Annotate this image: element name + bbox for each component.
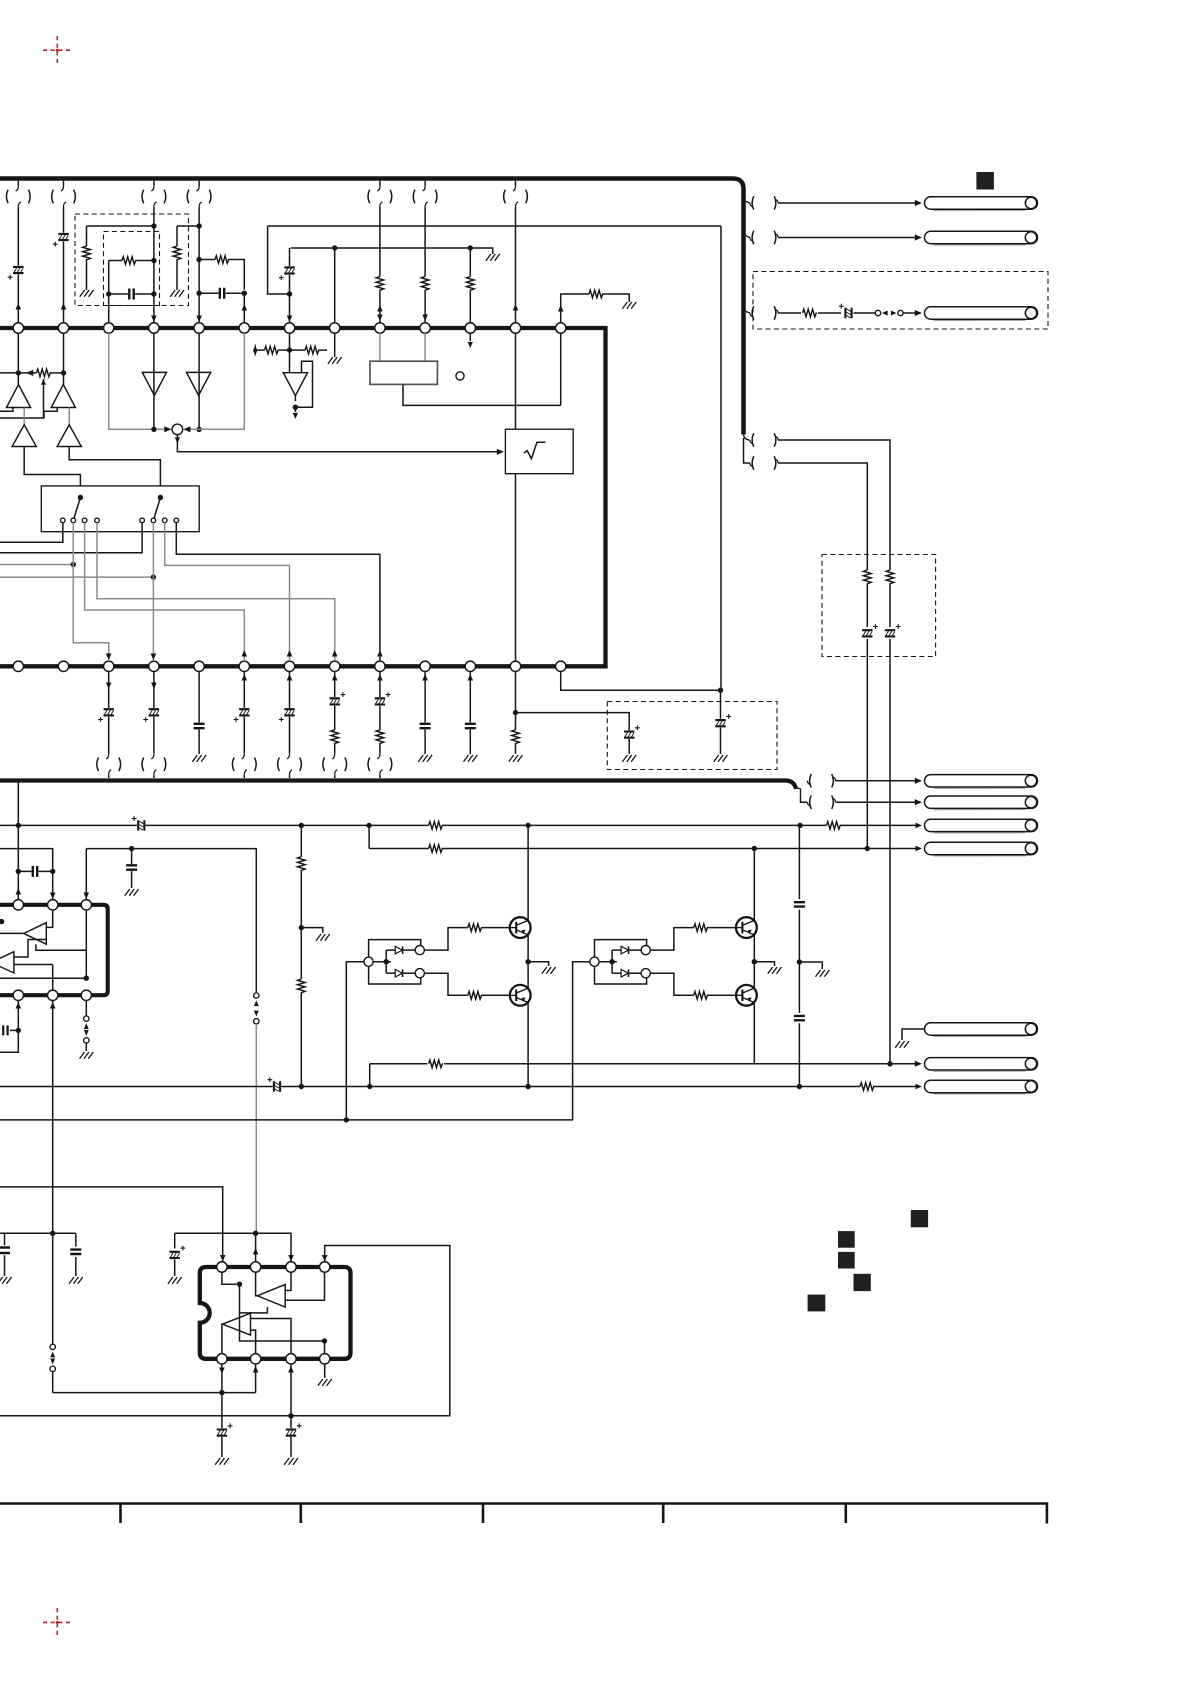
dashed box B [104, 232, 160, 306]
arrow U2p3 [84, 893, 90, 899]
IC U1 top pin 7 [284, 323, 294, 333]
wire U3 p2 int [256, 1273, 258, 1296]
node [299, 823, 304, 828]
wire A1-A3 link [23, 408, 25, 425]
index square S1 [911, 1210, 928, 1227]
arrow p19 [242, 650, 248, 656]
wire U3 p1 int [222, 1273, 237, 1285]
ground G24 [464, 755, 478, 762]
IC U1 top pin 9 [375, 323, 385, 333]
node pot-pin2 [61, 370, 66, 375]
wire R10 leads [889, 554, 891, 570]
node B1 in [384, 959, 389, 964]
diode D4 [621, 969, 628, 977]
arrow U3p3 [288, 1255, 294, 1261]
pot wiper arrow [41, 379, 46, 385]
ground G40 [215, 1458, 229, 1465]
IC U3 bottom pin 5 [320, 1354, 330, 1364]
wire y1233 mid seg [175, 1233, 291, 1261]
potentiometer R11 [37, 369, 51, 377]
capacitor C35 (electrolytic) [274, 1081, 280, 1091]
selector contact 1 [61, 518, 66, 523]
wire R2 leads [109, 260, 122, 262]
ground G38 [69, 1277, 83, 1284]
IC U1 bottom pin 18 [194, 661, 204, 671]
wire gray trunk x256 [255, 1024, 257, 1233]
wire bus hook 2 [744, 232, 751, 238]
arrow sum in-left [164, 426, 171, 432]
node y1233-256 [253, 1231, 258, 1236]
ground G35 [816, 970, 830, 977]
resistor R1 [83, 246, 91, 260]
capacitor C11 (electrolytic) [715, 720, 725, 726]
IC U2 outline [0, 905, 108, 995]
arrow [332, 674, 338, 680]
wire gray feed 2 [0, 576, 153, 578]
wire [0, 824, 137, 826]
arrow p20 [287, 650, 293, 656]
wire ring4 out [650, 973, 693, 995]
fold ruler [0, 1504, 1048, 1524]
wire R3 leads [176, 226, 178, 246]
function box F1 [370, 361, 437, 384]
node U3 int2 [322, 1338, 327, 1343]
wire U2 pin2 top [52, 871, 54, 899]
arrow U3p7 [253, 1366, 259, 1372]
capacitor C12 (electrolytic) [138, 820, 144, 830]
wire contact F chain [152, 523, 154, 661]
connector CN3-1 [810, 774, 812, 788]
connector CNB-19 [232, 758, 234, 772]
sqrt glyph [524, 442, 545, 458]
resistor R35 [694, 992, 708, 1000]
wire A3 out to switch [24, 447, 80, 487]
inline jack plug P4 [364, 957, 373, 966]
node contact F join [151, 574, 156, 579]
resistor R36 [429, 1060, 443, 1068]
ground G42 [318, 1379, 332, 1386]
wire [424, 672, 426, 723]
IC U1 top pin 5 [194, 323, 204, 333]
wire ring2 out [424, 973, 467, 995]
jack J7 [934, 855, 1026, 857]
IC U3 top pin 3 [286, 1262, 296, 1272]
node [16, 823, 21, 828]
capacitor C39 (electrolytic) [217, 1430, 227, 1436]
node C3 left [106, 291, 111, 296]
IC U1 top pin 4 [149, 323, 159, 333]
wire ring3 out [650, 928, 693, 951]
node p4 cap [16, 1028, 21, 1033]
diode D3 [621, 946, 628, 954]
resistor R9 [864, 570, 872, 584]
resistor R10 [886, 570, 894, 584]
wire [63, 181, 65, 186]
arrow p16 [106, 654, 112, 660]
capacitor C17 (electrolytic) [149, 709, 159, 715]
wire bus to y825 [17, 783, 19, 826]
wire x52 trunk 2 [52, 1372, 54, 1393]
jack J8 ground lead [902, 1029, 925, 1040]
switch SW1a [78, 495, 83, 500]
wire pin10 internal [424, 333, 426, 361]
arrow U2p1 [16, 888, 22, 894]
wire [289, 672, 291, 708]
resistor R26 [429, 822, 443, 830]
wire [469, 248, 471, 277]
arrow U3p6 [288, 1366, 294, 1372]
node [366, 823, 371, 828]
ground G37 [0, 1277, 12, 1284]
wire to jack J5 [836, 801, 917, 803]
capacitor C37 [70, 1250, 81, 1254]
resistor R28 [429, 845, 443, 853]
node c31 join [129, 846, 134, 851]
arrow [513, 304, 519, 310]
IC U1 bottom pin 14 [13, 661, 23, 671]
capacitor C4 [220, 288, 224, 299]
wire pin13 internal [560, 333, 562, 405]
arrow p21 [332, 650, 338, 656]
wire dec 4 [798, 1023, 800, 1086]
selector contact 4 [95, 518, 100, 523]
capacitor C18 [194, 724, 205, 728]
wire r-chain 2 [300, 871, 302, 928]
IC U2 bottom pin 5 [48, 990, 58, 1000]
wire [369, 848, 429, 850]
node lineA-B [367, 1084, 372, 1089]
arrow pin13 [558, 305, 564, 311]
connector CN1-2 [52, 190, 54, 204]
ground G7 [622, 755, 636, 762]
wire Q1-Q2 join [527, 935, 529, 988]
wire R14 to gnd [603, 294, 629, 302]
arrow sum out [175, 437, 180, 443]
ground G5 [192, 755, 206, 762]
wire pin2 internal [63, 333, 65, 385]
arrow [422, 315, 428, 321]
arrow J2 [915, 234, 922, 240]
arrow U3p2 [253, 1248, 259, 1254]
capacitor C22 (electrolytic) [375, 698, 385, 704]
wire D-mid [385, 950, 387, 973]
op-amp A4 (U1) [57, 425, 81, 447]
node sum-left [151, 427, 156, 432]
contact ring Q1 [415, 946, 424, 955]
wire [108, 672, 110, 708]
ground G23 [418, 755, 432, 762]
wire p7 row [222, 1392, 256, 1394]
connector CN2-3 [752, 306, 754, 320]
node p8 join [219, 1390, 224, 1395]
wire U3 p8 down [221, 1365, 223, 1429]
capacitor C34 [794, 1016, 805, 1020]
ground G2 [170, 290, 184, 297]
resistor R14 [589, 290, 603, 298]
jack J5 [934, 809, 1026, 811]
wire dec gnd stub [799, 962, 822, 969]
wire P4 left [346, 962, 364, 1120]
node contact B join [71, 562, 76, 567]
wire p7 up [255, 1365, 257, 1393]
IC U1 bottom pin 15 [58, 661, 68, 671]
arrow [61, 303, 67, 309]
capacitor C8 (electrolytic) [885, 630, 895, 636]
wire U2A in [46, 910, 52, 927]
IC U1 outline [0, 328, 606, 666]
wire [198, 672, 200, 723]
arrow pin6 [242, 304, 248, 310]
capacitor C3 [129, 289, 133, 300]
node [797, 823, 802, 828]
wire contact G chain [165, 523, 290, 661]
connector CN1-1 [6, 190, 8, 204]
ground G33 [542, 967, 556, 974]
IC U1 top pin 2 [58, 323, 68, 333]
arrow sum in-right [183, 426, 190, 432]
resistor R5 [467, 277, 475, 291]
arrow J4 [915, 778, 922, 784]
wire U3B in1 [251, 1319, 292, 1354]
wire dec chain [798, 825, 800, 899]
connector CN1-4 [142, 190, 144, 204]
node r-chain gnd [299, 925, 304, 930]
capacitor C36 [0, 1248, 10, 1254]
wire y848 vert [368, 825, 370, 848]
index square S4 [854, 1274, 871, 1291]
arrow [377, 315, 383, 321]
resistor R27 [827, 822, 841, 830]
capacitor C5 (electrolytic) [284, 267, 294, 273]
wire R1 top link [87, 225, 154, 227]
node B2 in [609, 959, 614, 964]
node [287, 291, 292, 296]
wire R8 to C6 [818, 312, 841, 314]
wire pin13 top [561, 294, 589, 323]
wire [515, 181, 517, 186]
IC U1 top pin 10 [420, 323, 430, 333]
IC U1 bottom pin 24 [465, 661, 475, 671]
IC U3 top pin 1 [217, 1262, 227, 1272]
wire dec 3 [798, 962, 800, 1013]
node [299, 1084, 304, 1089]
arrow J1 [915, 200, 922, 206]
capacitor C19 (electrolytic) [239, 709, 249, 715]
node lineA-x890 [887, 1061, 892, 1066]
op-amp U3B [223, 1313, 251, 1335]
wire c38 down [174, 1259, 176, 1276]
wire QG2 gnd [754, 962, 774, 966]
wire CN2-4 right [778, 440, 890, 554]
wire [379, 672, 381, 698]
wire U2 pin1 top [17, 825, 19, 899]
wire R9 leads [866, 554, 868, 570]
wire p4 down [0, 1030, 18, 1052]
wire B2 bracket low [595, 966, 647, 984]
wire bus drop 2 [801, 798, 808, 803]
node fb join [718, 688, 723, 693]
jack J6 [934, 832, 1026, 834]
inline plug P6 [50, 1344, 55, 1349]
connector CN2-1 [752, 196, 754, 210]
wire B5 out [198, 372, 200, 429]
wire A1 base stub [0, 408, 13, 412]
wire contact E out [0, 523, 142, 553]
node U3 int1 [237, 1282, 242, 1287]
wire pin7 internal [289, 333, 291, 373]
dashed box supply [607, 702, 777, 770]
IC U1 top pin 3 [104, 323, 114, 333]
transistor Q4 [736, 985, 757, 1006]
capacitor C6 (electrolytic) [845, 308, 851, 318]
capacitor C1 (electrolytic) [13, 267, 23, 273]
resistor R2 [122, 257, 136, 265]
node pot-pin1 [16, 370, 21, 375]
arrow [377, 305, 383, 311]
wire C39 down [221, 1437, 223, 1457]
wire c31 down [131, 871, 133, 888]
jack J4 [934, 787, 1026, 789]
wire pin9 internal [379, 333, 381, 361]
wire U2A out [0, 932, 24, 934]
transistor Q1 [510, 917, 531, 938]
IC U1 top pin 1 [13, 323, 23, 333]
capacitor C10 (electrolytic) [624, 732, 634, 738]
wire U2A fb [36, 944, 86, 950]
wire bus hook 3 [744, 308, 751, 314]
diode D1 [395, 946, 402, 954]
op-amp A3 (U1) [12, 425, 36, 447]
wire P5 left [573, 962, 590, 1120]
jack J10 [934, 1093, 1026, 1095]
node pin5-226 [196, 223, 201, 228]
wire dec 2 [798, 910, 800, 962]
node pin4-226 [151, 223, 156, 228]
wire U2 978 left [0, 977, 86, 979]
selector contact 5 [140, 518, 145, 523]
wire U3 p4 int [285, 1273, 324, 1301]
arrow [916, 1084, 922, 1090]
node y1233-52 [50, 1231, 55, 1236]
wire pin6 internal [188, 333, 244, 429]
node [525, 1084, 530, 1089]
resistor R25 [512, 730, 520, 744]
node [525, 823, 530, 828]
ground G30 [125, 889, 139, 896]
capacitor C32 [3, 1025, 7, 1035]
wire U3B in2 [251, 1330, 256, 1353]
wire R33 out [482, 994, 510, 996]
capacitor C33 [794, 902, 805, 906]
ground G4 [328, 357, 342, 364]
wire y848 mid [86, 849, 256, 992]
arrow B7 out [293, 413, 298, 419]
ground G39 [168, 1277, 182, 1284]
connector CNB-16 [97, 758, 99, 772]
arrow [287, 674, 293, 680]
inline plug P1 [875, 310, 880, 315]
arrow U2p4 [16, 1002, 22, 1008]
wire fb drop x721 [720, 226, 722, 690]
node cap30 right [50, 869, 55, 874]
wire r-chain 4 [300, 993, 302, 1087]
wire [334, 672, 336, 698]
wire U3 p6 down [290, 1365, 292, 1429]
connector CN1-10 [413, 190, 415, 204]
dashed box A [75, 214, 189, 306]
arrow [916, 846, 922, 852]
wire gnd stub [301, 928, 323, 933]
arrow pin11 internal [469, 333, 471, 341]
wire B7 out [294, 396, 296, 401]
selector contact 3 [82, 518, 87, 523]
selector contact 6 [151, 518, 156, 523]
wire c37 down [75, 1257, 77, 1276]
resistor R34 [694, 924, 708, 932]
summing node S1 [172, 424, 183, 435]
wire c37 drop [75, 1233, 77, 1246]
wire conn to R8 [778, 312, 801, 314]
wire pin3 internal [109, 333, 166, 429]
node [797, 1084, 802, 1089]
index square S5 [808, 1295, 826, 1312]
wire to jack J1 [778, 202, 916, 204]
wire pin25 branch [516, 713, 630, 731]
capacitor C40 (electrolytic) [286, 1430, 296, 1436]
wire U3 p2 feed [255, 1233, 257, 1261]
capacitor C16 (electrolytic) [104, 709, 114, 715]
resistor R32 [468, 924, 482, 932]
wire [153, 672, 155, 708]
node dec gnd [797, 959, 802, 964]
wire [243, 672, 245, 708]
ground G41 [284, 1458, 298, 1465]
connector CN1-9 [368, 190, 370, 204]
resistor R3 [173, 246, 181, 260]
IC U1 bottom pin 21 [330, 661, 340, 671]
wire U2 pin5 int [52, 965, 54, 991]
ground G8 [714, 755, 728, 762]
arrow [106, 683, 112, 689]
arrow [377, 674, 383, 680]
wire C4 leads [199, 292, 218, 294]
connector CN1-5 [187, 190, 189, 204]
wire B1 bracket low [369, 966, 421, 984]
wire Q3 collector up [753, 849, 755, 921]
wire Q1 collector up [527, 825, 529, 920]
arrow into sqrt box [497, 449, 504, 455]
wire U2 pin6 below [85, 1001, 87, 1016]
wire c38 drop [174, 1233, 176, 1248]
contact ring Q2 [415, 969, 424, 978]
wire Q4 emitter down [753, 1003, 755, 1064]
arrow p17 [151, 654, 157, 660]
buffer B7 (U1) [283, 373, 307, 396]
resistor R7 [421, 277, 429, 291]
wire pin8 upper [334, 248, 336, 323]
wire [198, 181, 200, 186]
jack J3 [934, 319, 1026, 321]
IC U1 bottom pin 26 [556, 661, 566, 671]
ground G32 [316, 934, 330, 941]
connector CN2-5 [752, 456, 754, 470]
node [865, 846, 870, 851]
IC U1 top pin 11 [465, 323, 475, 333]
inline plug P2 [84, 1016, 89, 1021]
wire Q2 emitter down [527, 1003, 529, 1087]
wire U3B out [221, 1324, 224, 1353]
arrow [151, 683, 157, 689]
